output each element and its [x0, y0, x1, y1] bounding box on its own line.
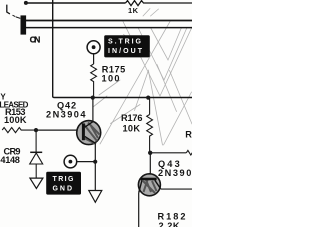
svg-text:100K: 100K [4, 115, 27, 125]
transistor Q42 [77, 121, 101, 145]
resistor R153 horizontal [2, 128, 36, 133]
wire: jack to emitter node [76, 161, 95, 163]
diode CR9 [30, 151, 42, 153]
resistor R176 vertical [147, 115, 153, 153]
wire: collector node to right resistor [150, 152, 186, 154]
svg-text:1K: 1K [128, 6, 139, 15]
label box TRIG GND [46, 172, 81, 195]
node: junction dot Q43 collector [148, 151, 152, 155]
wire: base wire to Q42 [36, 129, 82, 131]
wire: Q43 emitter down [138, 193, 140, 227]
node: rail junction dot at R176 [146, 96, 150, 100]
wire: dot down to CR9 [35, 130, 37, 152]
ground (open triangle) below Q42 emitter [89, 191, 102, 203]
switch S (slide bar) [21, 15, 27, 34]
svg-text:GND: GND [53, 185, 73, 192]
wire: switch contact lower (y=27.7) [26, 27, 192, 29]
svg-text:R176: R176 [121, 113, 143, 123]
svg-text:R1: R1 [185, 129, 192, 139]
hatched screened region (scribble fill) [93, 9, 192, 146]
wire: Q43 base to right edge [161, 188, 192, 190]
node: junction dot on top wire [24, 1, 28, 5]
svg-text:100: 100 [102, 74, 120, 84]
node: rail junction dot at R175/Q42 collector [91, 96, 95, 100]
resistor (partial, right edge) [186, 150, 192, 155]
wire: vertical x=53 from top to rail [53, 0, 192, 98]
connector jack S TRIG (circle with dot) [87, 41, 100, 54]
svg-text:IN/OUT: IN/OUT [108, 48, 143, 55]
label box S.TRIG IN/OUT [104, 35, 150, 57]
svg-text:R182: R182 [158, 212, 187, 222]
svg-text:ON: ON [30, 34, 41, 44]
wire: Q42 collector up to rail [92, 98, 94, 122]
transistor Q43 [138, 174, 160, 196]
wire: Q43 collector [149, 153, 151, 178]
switch actuator dash 2 [16, 17, 20, 19]
wire: R176 top lead from rail [149, 98, 151, 115]
resistor R(1K) horizontal on top wire [126, 1, 193, 6]
ground (open triangle) below CR9 [30, 178, 43, 188]
switch actuator dash [13, 15, 16, 16]
wire: top horizontal (y=3) [26, 2, 126, 4]
connector jack TRIG GND (circle with dot) [64, 155, 77, 168]
svg-text:4148: 4148 [0, 155, 20, 165]
wire: switch contact upper (y=20.2) [26, 20, 192, 22]
svg-text:2.2K: 2.2K [159, 221, 180, 227]
svg-text:10K: 10K [123, 123, 141, 133]
node: junction dot emitter / trig gnd [93, 160, 97, 164]
wire: CR9 to ground [35, 164, 37, 178]
svg-text:2N3904: 2N3904 [158, 168, 192, 178]
wire: Q42 emitter down [94, 143, 96, 190]
switch actuator hook [7, 5, 10, 14]
node: junction dot R153/CR9/base [34, 128, 38, 132]
wire: jack to R175 [93, 53, 95, 64]
resistor R175 vertical [91, 64, 97, 98]
